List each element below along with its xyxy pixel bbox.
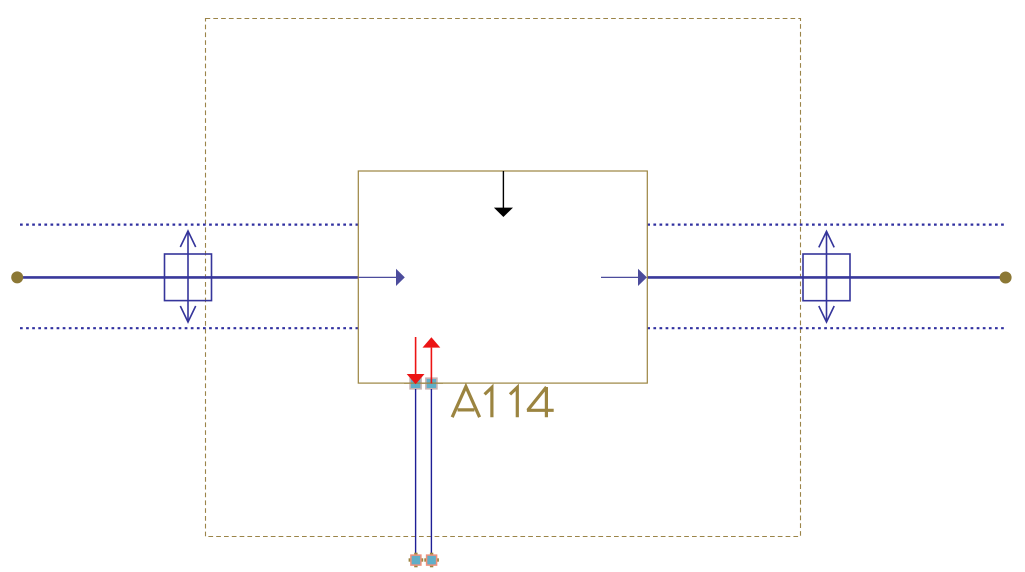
terminal T2 (bottom, cross + teal square) [424,553,439,568]
pin P1 (block bottom, teal square) [410,378,421,389]
wire (main line, left of block) [23,276,359,279]
pin P2 (block bottom, teal square) [426,378,437,389]
pipe line bottom (dotted, right segment) [647,327,1005,329]
label A114 [452,387,554,418]
flow arrow down (red, into pin P1) [407,337,425,384]
top port arrow (black, pointing down into block) [494,171,513,217]
transfer symbol left (square with bidirectional arrow) [165,231,212,322]
node (right connection dot) [1000,272,1012,284]
terminal T1 (bottom, cross + teal square) [409,553,424,568]
wire (main line, right of block) [647,276,1000,279]
inner flow arrow left (blue, at block input) [359,269,405,286]
pipe line bottom (dotted, left segment) [20,327,358,329]
pipe line top (dotted, right segment) [647,224,1005,226]
flow arrow up (red, out of pin P2) [423,337,441,383]
wire (navy, pin P1 down to terminal T1) [415,389,417,555]
node (left connection dot) [11,271,23,283]
block A114 bottom edge over pins [404,382,443,384]
pipe line top (dotted, left segment) [20,224,358,226]
inner flow arrow right (blue, at block output) [601,269,647,286]
boundary frame of block A114 (dashed) [206,19,801,537]
transfer symbol right (square with bidirectional arrow) [803,231,850,322]
block A114 (device outline) [358,171,647,383]
wire (navy, pin P2 down to terminal T2) [430,389,432,555]
